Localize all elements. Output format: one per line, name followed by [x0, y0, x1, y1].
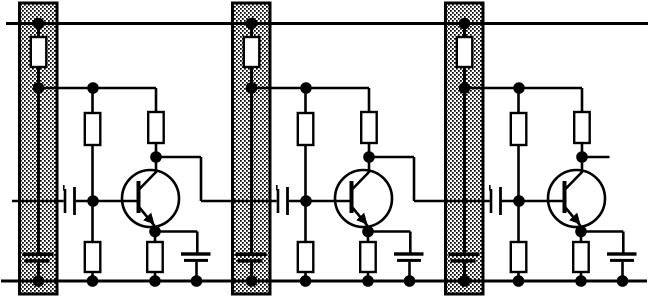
node: shield 3 decoupled supply tap [459, 82, 471, 94]
capacitor C4 (input coupling, stage 2) [277, 185, 288, 215]
wire: decoupled supply branch stage 3 [465, 88, 583, 172]
node: lower bias resistor to ground stage 1 [87, 275, 99, 287]
resistor R5 (emitter, stage 1) [147, 242, 163, 272]
wire: supply feed-through inside shield 3 [463, 24, 466, 282]
capacitor C-bypass (emitter bypass, stage 1) [181, 252, 211, 262]
resistor R7 (upper bias divider, stage 2) [298, 113, 314, 145]
wire: interstage link stage 1 collector to stage 2 [156, 157, 201, 201]
wire: emitter leg vertical stage 1 [154, 226, 157, 281]
node: base bias junction stage 1 [87, 195, 99, 207]
shield partition 2 (screening wall) [233, 3, 271, 294]
wire: decoupled supply branch stage 1 [39, 88, 157, 172]
transistor Q3 (NPN, stage 3) [548, 170, 605, 227]
wire: bias divider vertical stage 3 [517, 88, 520, 281]
wire: bypass capacitor to ground stage 2 [408, 262, 411, 281]
node: shield 1 decoupled supply tap [33, 82, 45, 94]
capacitor C6 (input coupling, stage 3) [490, 185, 501, 215]
resistor R14 (collector load, stage 3) [574, 112, 590, 143]
shield partition 1 (screening wall) [20, 3, 58, 294]
wire: input signal line stage 2 [201, 200, 277, 203]
resistor R6 (supply decoupling, in shield 2) [244, 37, 259, 67]
wire: interstage link stage 2 collector to stage 3 [369, 157, 414, 201]
transistor Q1 (NPN, stage 1) [122, 170, 179, 227]
wire: base lead stage 3 [502, 200, 566, 203]
node: lower bias resistor to ground stage 3 [513, 275, 525, 287]
resistor R15 (emitter, stage 3) [573, 242, 589, 272]
wire: emitter to bypass capacitor stage 3 [581, 232, 623, 254]
capacitor C1 (supply decoupling, in shield 1) [23, 253, 54, 263]
resistor R11 (supply decoupling, in shield 3) [457, 37, 473, 67]
resistor R1 (supply decoupling, in shield 1) [31, 37, 47, 67]
capacitor C-bypass (emitter bypass, stage 3) [607, 252, 637, 262]
node: base bias junction stage 3 [513, 195, 525, 207]
node: collector of Q3 [576, 151, 588, 163]
capacitor C5 (supply decoupling, in shield 3) [449, 253, 480, 263]
capacitor C3 (supply decoupling, in shield 2) [236, 253, 267, 263]
wire: supply feed-through inside shield 2 [250, 24, 253, 282]
node: bias divider to supply branch stage 3 [513, 82, 525, 94]
node: emitter of Q2 [362, 226, 374, 238]
node: lower bias resistor to ground stage 2 [300, 275, 312, 287]
node: shield 2 decoupled supply tap [246, 82, 258, 94]
resistor R8 (lower bias divider, stage 2) [298, 242, 314, 272]
bottom ground rail (0V bus) [1, 280, 647, 283]
shield partition 3 (screening wall) [446, 3, 484, 294]
wire: bias divider vertical stage 1 [91, 88, 94, 281]
wire: bypass capacitor to ground stage 3 [621, 262, 624, 281]
resistor R4 (collector load, stage 1) [148, 112, 164, 143]
wire: emitter leg vertical stage 2 [367, 226, 370, 281]
wire: emitter to bypass capacitor stage 2 [368, 232, 410, 254]
node: emitter of Q1 [149, 226, 161, 238]
node: emitter of Q3 [575, 226, 587, 238]
node: emitter resistor to ground stage 3 [575, 275, 587, 287]
wire: bypass capacitor to ground stage 1 [195, 262, 198, 281]
top supply rail (+V bus) [6, 22, 648, 25]
node: shield 1 wire to top rail [33, 18, 45, 30]
resistor R9 (collector load, stage 2) [361, 112, 377, 143]
node: bias divider to supply branch stage 2 [300, 82, 312, 94]
capacitor C-bypass (emitter bypass, stage 2) [394, 252, 424, 262]
node: shield 1 capacitor to ground rail [33, 275, 45, 287]
wire: base lead stage 2 [289, 200, 353, 203]
wire: emitter leg vertical stage 3 [580, 226, 583, 281]
wire: supply feed-through inside shield 1 [37, 24, 40, 282]
node: base bias junction stage 2 [300, 195, 312, 207]
wire: bias divider vertical stage 2 [304, 88, 307, 281]
resistor R3 (lower bias divider, stage 1) [85, 242, 101, 272]
capacitor C2 (input coupling, stage 1) [64, 185, 75, 215]
node: shield 2 wire to top rail [246, 18, 258, 30]
node: bypass capacitor to ground stage 3 [617, 275, 629, 287]
resistor R2 (upper bias divider, stage 1) [85, 113, 101, 145]
node: shield 3 wire to top rail [459, 18, 471, 30]
resistor R10 (emitter, stage 2) [360, 242, 376, 272]
wire: input signal line stage 3 [414, 200, 490, 203]
node: shield 2 capacitor to ground rail [246, 275, 258, 287]
node: shield 3 capacitor to ground rail [459, 275, 471, 287]
wire: output stub from collector of Q3 [582, 156, 610, 158]
wire: emitter to bypass capacitor stage 1 [155, 232, 197, 254]
node: emitter resistor to ground stage 1 [149, 275, 161, 287]
wire: base lead stage 1 [76, 200, 140, 203]
node: bypass capacitor to ground stage 2 [404, 275, 416, 287]
node: bypass capacitor to ground stage 1 [191, 275, 203, 287]
transistor Q2 (NPN, stage 2) [335, 170, 392, 227]
node: bias divider to supply branch stage 1 [87, 82, 99, 94]
resistor R12 (upper bias divider, stage 3) [511, 113, 527, 145]
node: emitter resistor to ground stage 2 [362, 275, 374, 287]
resistor R13 (lower bias divider, stage 3) [511, 242, 527, 272]
wire: decoupled supply branch stage 2 [252, 88, 370, 172]
node: collector of Q2 [363, 151, 375, 163]
node: collector of Q1 [150, 151, 162, 163]
wire: input signal line stage 1 [12, 200, 64, 203]
